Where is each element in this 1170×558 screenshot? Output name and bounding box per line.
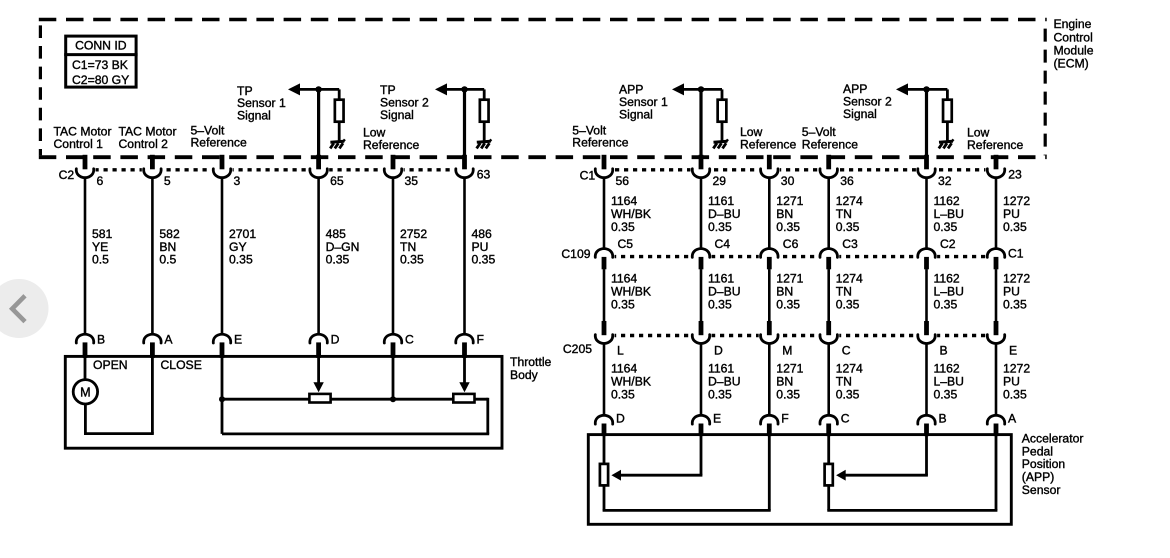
TP sensor 2 wiper arrow from pin F xyxy=(459,356,469,392)
label wire 1164 segment 3 xyxy=(611,361,651,401)
APP sensor 1 signal arrow xyxy=(672,83,722,95)
label 5-Volt Reference (pin 56) xyxy=(572,123,628,149)
APP sensor 1 potentiometer xyxy=(600,435,608,486)
connector C109 pin C2 xyxy=(916,237,956,269)
APP sensor 1 wiper arrow from pin E xyxy=(611,435,702,481)
wire ECM to C109 xyxy=(768,177,771,248)
throttle body pin D terminal xyxy=(310,333,340,358)
svg-text:B: B xyxy=(940,343,948,357)
label wire 2752 xyxy=(400,227,427,266)
wire C205 to APP sensor xyxy=(925,343,928,415)
svg-text:63: 63 xyxy=(477,168,491,182)
svg-text:6: 6 xyxy=(97,174,104,188)
wire ECM to throttle body pin F xyxy=(463,177,466,334)
wire C109 to C205 xyxy=(700,269,703,321)
label wire 1272 segment 1 xyxy=(1003,194,1030,234)
svg-text:C: C xyxy=(405,333,414,347)
svg-text:TN: TN xyxy=(836,284,852,298)
label TAC Motor Control 2 xyxy=(119,125,177,151)
ECM pin 56 terminal xyxy=(593,155,629,188)
label 5-Volt Reference (pin 36) xyxy=(802,125,858,151)
svg-text:C5: C5 xyxy=(618,237,634,251)
svg-text:F: F xyxy=(781,412,788,426)
svg-text:Control: Control xyxy=(1054,30,1093,44)
svg-text:36: 36 xyxy=(840,174,854,188)
TP sensor 2 potentiometer xyxy=(453,394,474,403)
carousel previous button xyxy=(0,279,49,338)
wire ECM to C109 xyxy=(700,177,703,248)
svg-text:L–BU: L–BU xyxy=(934,374,965,388)
APP sensor 2 low side wire to pin A xyxy=(827,435,997,511)
svg-text:F: F xyxy=(477,333,484,347)
svg-text:3: 3 xyxy=(234,174,241,188)
wire ECM to throttle body pin E xyxy=(221,177,224,334)
svg-text:Signal: Signal xyxy=(237,109,271,123)
svg-text:WH/BK: WH/BK xyxy=(611,374,651,388)
ECM pin 32 terminal xyxy=(916,155,952,188)
label wire 1271 segment 2 xyxy=(776,271,803,311)
svg-text:32: 32 xyxy=(938,174,952,188)
svg-text:1271: 1271 xyxy=(776,271,803,285)
label APP Sensor 2 Signal xyxy=(843,82,892,121)
svg-text:Reference: Reference xyxy=(802,137,858,151)
TP sensor 1 potentiometer xyxy=(309,394,330,403)
connector C109 pin C3 xyxy=(818,237,858,269)
label TP Sensor 1 Signal xyxy=(237,84,286,123)
svg-text:Reference: Reference xyxy=(363,138,419,152)
label 5-Volt Reference (pin 3) xyxy=(191,123,247,149)
svg-text:BN: BN xyxy=(776,207,793,221)
svg-text:1272: 1272 xyxy=(1003,271,1030,285)
connector line C205 (dotted) xyxy=(594,334,1003,337)
label Low Reference (pin 23) xyxy=(967,126,1023,152)
ECM pin 35 terminal xyxy=(382,155,418,188)
svg-text:0.35: 0.35 xyxy=(934,298,958,312)
svg-text:0.35: 0.35 xyxy=(708,220,732,234)
resistor TP sensor 1 pull-up xyxy=(335,89,344,140)
svg-text:0.35: 0.35 xyxy=(1003,388,1027,402)
ground APP sensor 2 xyxy=(939,139,954,148)
wire TP sensor 1 signal drop xyxy=(317,89,320,156)
svg-text:1161: 1161 xyxy=(708,271,734,285)
svg-text:(ECM): (ECM) xyxy=(1054,56,1089,70)
svg-text:0.35: 0.35 xyxy=(836,388,860,402)
svg-text:1161: 1161 xyxy=(708,361,734,375)
wire ECM to C109 xyxy=(603,177,606,248)
svg-text:B: B xyxy=(939,412,947,426)
svg-text:TN: TN xyxy=(836,207,852,221)
svg-text:23: 23 xyxy=(1008,168,1022,182)
connector C109 pin C4 xyxy=(690,237,730,269)
svg-text:1271: 1271 xyxy=(776,194,803,208)
APP sensor 2 signal arrow xyxy=(896,83,947,95)
svg-text:1272: 1272 xyxy=(1003,194,1030,208)
svg-text:PU: PU xyxy=(1003,207,1020,221)
svg-text:35: 35 xyxy=(405,174,419,188)
wire APP sensor 1 signal drop xyxy=(699,89,702,156)
svg-text:1162: 1162 xyxy=(934,271,960,285)
wire C205 to APP sensor xyxy=(700,343,703,415)
wire TP sensor 2 signal drop xyxy=(463,89,466,156)
svg-text:Control 1: Control 1 xyxy=(54,137,104,151)
label wire 1162 segment 3 xyxy=(934,361,965,401)
svg-text:Signal: Signal xyxy=(619,107,653,121)
svg-text:A: A xyxy=(1008,412,1017,426)
label wire 1271 segment 1 xyxy=(776,194,803,234)
svg-text:D–BU: D–BU xyxy=(708,207,741,221)
svg-text:C6: C6 xyxy=(783,237,799,251)
APP sensor pin A terminal xyxy=(987,412,1017,437)
connector C205 pin L xyxy=(593,321,624,357)
wire C205 to APP sensor xyxy=(768,343,771,415)
svg-text:Signal: Signal xyxy=(380,108,414,122)
CONN ID table xyxy=(64,36,137,87)
label wire 1272 segment 3 xyxy=(1003,361,1030,401)
label wire 1164 segment 2 xyxy=(611,271,651,311)
connector line C1 (dotted) xyxy=(597,168,1001,171)
label Engine Control Module (ECM) xyxy=(1054,17,1094,70)
TP sensor 2 signal arrow xyxy=(435,83,484,95)
label wire 1162 segment 2 xyxy=(934,271,965,311)
svg-text:C: C xyxy=(841,412,850,426)
svg-text:Signal: Signal xyxy=(843,107,877,121)
svg-text:0.35: 0.35 xyxy=(836,298,860,312)
svg-text:Throttle: Throttle xyxy=(510,355,552,369)
ECM module dashed boundary xyxy=(39,20,1047,158)
svg-text:0.35: 0.35 xyxy=(472,253,496,267)
wire C205 to APP sensor xyxy=(603,343,606,415)
ECM pin 29 terminal xyxy=(690,155,726,188)
label wire 1162 segment 1 xyxy=(934,194,965,234)
svg-text:1274: 1274 xyxy=(836,194,863,208)
svg-text:D: D xyxy=(616,412,625,426)
ECM pin 6 terminal xyxy=(74,155,103,188)
connector line C109 (dotted) xyxy=(594,255,1006,258)
label wire 2701 xyxy=(229,227,256,266)
ground APP sensor 1 xyxy=(713,139,728,148)
connector C109 pin C1 xyxy=(985,247,1023,270)
APP sensor pin C terminal xyxy=(820,412,850,437)
connector C109 pin C6 xyxy=(759,237,799,269)
svg-text:C205: C205 xyxy=(563,342,592,356)
connector C205 pin B xyxy=(916,321,948,357)
svg-text:E: E xyxy=(713,412,721,426)
wire C205 to APP sensor xyxy=(827,343,830,415)
ECM pin 3 terminal xyxy=(211,155,240,188)
svg-text:56: 56 xyxy=(616,174,630,188)
svg-text:0.35: 0.35 xyxy=(400,253,424,267)
svg-text:0.35: 0.35 xyxy=(611,388,635,402)
svg-text:0.5: 0.5 xyxy=(92,253,109,267)
ground TP sensor 2 xyxy=(477,139,492,148)
svg-text:Reference: Reference xyxy=(572,136,628,150)
label wire 1272 segment 2 xyxy=(1003,271,1030,311)
svg-text:E: E xyxy=(1009,343,1017,357)
svg-text:D: D xyxy=(714,343,723,357)
svg-text:1164: 1164 xyxy=(611,271,637,285)
svg-text:C2: C2 xyxy=(59,168,75,182)
resistor APP sensor 1 pull-up xyxy=(718,89,727,140)
svg-text:1164: 1164 xyxy=(611,361,637,375)
svg-text:1271: 1271 xyxy=(776,361,803,375)
svg-text:M: M xyxy=(80,386,91,400)
svg-text:TN: TN xyxy=(836,374,852,388)
wire C109 to C205 xyxy=(995,269,998,321)
svg-text:L–BU: L–BU xyxy=(934,207,965,221)
wire C109 to C205 xyxy=(768,269,771,321)
throttle body pin A terminal xyxy=(144,333,174,358)
svg-text:0.35: 0.35 xyxy=(836,220,860,234)
resistor TP sensor 2 pull-up xyxy=(480,89,489,140)
svg-text:1162: 1162 xyxy=(934,194,960,208)
svg-text:BN: BN xyxy=(776,284,793,298)
label wire 486 xyxy=(472,227,496,266)
svg-text:Reference: Reference xyxy=(191,136,247,150)
label APP Sensor 1 Signal xyxy=(619,83,668,122)
accelerator pedal position sensor box xyxy=(588,435,1011,525)
svg-text:65: 65 xyxy=(330,174,344,188)
svg-text:0.35: 0.35 xyxy=(611,220,635,234)
wire motor to close (pin A) xyxy=(84,356,154,433)
svg-text:0.35: 0.35 xyxy=(934,388,958,402)
label Accelerator Pedal Position (APP) Sensor xyxy=(1022,432,1084,497)
svg-text:CLOSE: CLOSE xyxy=(161,358,202,372)
svg-text:C1: C1 xyxy=(580,168,596,182)
label wire 582 xyxy=(159,227,180,266)
wire APP sensor 2 signal drop xyxy=(925,89,928,156)
throttle body pin B terminal xyxy=(76,333,105,358)
svg-text:5: 5 xyxy=(164,174,171,188)
wire C109 to C205 xyxy=(827,269,830,321)
throttle body pin E terminal xyxy=(213,333,242,358)
wire ECM to throttle body pin B xyxy=(84,177,87,334)
svg-text:29: 29 xyxy=(713,174,727,188)
svg-text:C2=80 GY: C2=80 GY xyxy=(72,73,129,87)
svg-text:B: B xyxy=(97,333,105,347)
svg-text:D–BU: D–BU xyxy=(708,284,741,298)
ECM pin 30 terminal xyxy=(759,155,795,188)
svg-text:0.35: 0.35 xyxy=(229,253,253,267)
throttle body pin C terminal xyxy=(384,333,414,358)
connector C205 pin D xyxy=(690,321,723,357)
svg-text:Sensor: Sensor xyxy=(1022,483,1061,497)
wire C109 to C205 xyxy=(925,269,928,321)
svg-text:L: L xyxy=(617,343,624,357)
svg-text:1161: 1161 xyxy=(708,194,734,208)
svg-text:Reference: Reference xyxy=(740,137,796,151)
wire C109 to C205 xyxy=(603,269,606,321)
APP sensor 2 potentiometer xyxy=(825,435,833,486)
svg-text:C3: C3 xyxy=(842,237,858,251)
wire ECM to throttle body pin A xyxy=(151,177,154,334)
wire ECM to C109 xyxy=(925,177,928,248)
label Low Reference (pin 30) xyxy=(740,125,796,151)
svg-text:BN: BN xyxy=(776,374,793,388)
wire ECM to throttle body pin C xyxy=(392,177,395,334)
svg-text:L–BU: L–BU xyxy=(934,284,965,298)
svg-text:0.35: 0.35 xyxy=(708,388,732,402)
svg-text:0.35: 0.35 xyxy=(708,298,732,312)
svg-text:0.35: 0.35 xyxy=(326,253,350,267)
svg-text:C: C xyxy=(842,343,851,357)
throttle body pin F terminal xyxy=(456,333,484,358)
TP sensor 1 wiper arrow from pin D xyxy=(313,356,323,392)
label wire 1271 segment 3 xyxy=(776,361,803,401)
label wire 1274 segment 2 xyxy=(836,271,863,311)
throttle body box xyxy=(65,356,502,448)
label wire 1161 segment 3 xyxy=(708,361,741,401)
svg-text:C1: C1 xyxy=(1008,247,1024,261)
svg-text:30: 30 xyxy=(781,174,795,188)
label wire 1161 segment 1 xyxy=(708,194,741,234)
svg-text:WH/BK: WH/BK xyxy=(611,284,651,298)
svg-text:1162: 1162 xyxy=(934,361,960,375)
label wire 1164 segment 1 xyxy=(611,194,651,234)
ECM pin 63 terminal xyxy=(454,155,491,182)
svg-text:0.35: 0.35 xyxy=(611,298,635,312)
motor M circle xyxy=(73,356,97,404)
label TAC Motor Control 1 xyxy=(54,125,112,151)
label wire 1161 segment 2 xyxy=(708,271,741,311)
APP sensor pin B terminal xyxy=(918,412,947,437)
ECM pin 23 terminal xyxy=(985,155,1022,182)
label TP Sensor 2 Signal xyxy=(380,83,429,122)
TP sensor 1 signal arrow xyxy=(288,83,339,95)
svg-text:0.35: 0.35 xyxy=(1003,298,1027,312)
svg-text:D: D xyxy=(331,333,340,347)
svg-text:0.35: 0.35 xyxy=(776,298,800,312)
svg-text:C4: C4 xyxy=(715,237,731,251)
wire ECM to C109 xyxy=(827,177,830,248)
svg-text:C109: C109 xyxy=(561,247,590,261)
svg-text:0.35: 0.35 xyxy=(776,388,800,402)
resistor APP sensor 2 pull-up xyxy=(943,89,952,140)
wire ECM to throttle body pin D xyxy=(317,177,320,334)
svg-text:PU: PU xyxy=(1003,374,1020,388)
svg-text:1164: 1164 xyxy=(611,194,637,208)
connector C205 pin E xyxy=(985,321,1017,357)
APP sensor pin E terminal xyxy=(692,412,721,437)
connector line C2 (dotted) xyxy=(77,168,472,171)
connector C205 pin M xyxy=(759,321,793,357)
svg-text:0.5: 0.5 xyxy=(159,253,176,267)
APP sensor 1 low side wire to pin F xyxy=(603,435,771,511)
label wire 1274 segment 3 xyxy=(836,361,863,401)
svg-text:Control 2: Control 2 xyxy=(119,137,169,151)
connector C205 pin C xyxy=(818,321,851,357)
svg-text:Module: Module xyxy=(1054,43,1094,57)
label Low Reference (pin 35) xyxy=(363,126,419,152)
svg-text:C1=73 BK: C1=73 BK xyxy=(72,58,128,72)
label Throttle Body xyxy=(510,355,552,382)
svg-text:D–BU: D–BU xyxy=(708,374,741,388)
svg-text:1274: 1274 xyxy=(836,271,863,285)
svg-text:Reference: Reference xyxy=(967,138,1023,152)
svg-text:1272: 1272 xyxy=(1003,361,1030,375)
svg-text:CONN ID: CONN ID xyxy=(75,39,127,53)
svg-text:C2: C2 xyxy=(940,237,956,251)
svg-text:OPEN: OPEN xyxy=(93,358,128,372)
label wire 581 xyxy=(92,227,113,266)
ECM pin 5 terminal xyxy=(142,155,171,188)
connector C109 pin C5 xyxy=(593,237,633,269)
svg-text:1274: 1274 xyxy=(836,361,863,375)
label wire 1274 segment 1 xyxy=(836,194,863,234)
svg-text:M: M xyxy=(782,343,792,357)
svg-text:0.35: 0.35 xyxy=(776,220,800,234)
svg-text:Body: Body xyxy=(510,368,539,382)
svg-text:0.35: 0.35 xyxy=(1003,220,1027,234)
ground TP sensor 1 xyxy=(330,139,345,148)
wire 5-volt bus inside throttle body xyxy=(219,356,489,434)
svg-text:A: A xyxy=(164,333,173,347)
svg-text:Engine: Engine xyxy=(1054,17,1092,31)
APP sensor 2 wiper arrow from pin B xyxy=(836,435,928,481)
APP sensor pin D terminal xyxy=(595,412,625,437)
ECM pin 65 terminal xyxy=(308,155,344,188)
label wire 485 xyxy=(326,227,360,266)
APP sensor pin F terminal xyxy=(761,412,789,437)
wire C205 to APP sensor xyxy=(995,343,998,415)
svg-text:0.35: 0.35 xyxy=(934,220,958,234)
svg-text:WH/BK: WH/BK xyxy=(611,207,651,221)
svg-text:E: E xyxy=(234,333,242,347)
ECM pin 36 terminal xyxy=(818,155,854,188)
wire ECM to C109 xyxy=(995,177,998,248)
svg-text:PU: PU xyxy=(1003,284,1020,298)
